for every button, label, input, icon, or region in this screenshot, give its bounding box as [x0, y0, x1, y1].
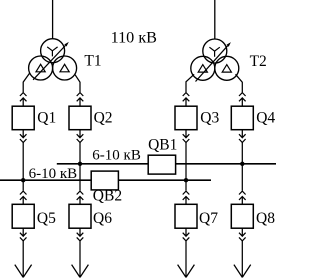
outgoing feeder arrow from Q5 [15, 241, 32, 278]
wire Q2 to section bus 2, crossing bus 1 [79, 143, 81, 191]
wire Q1 to section bus 1 [22, 143, 24, 181]
wire Q3 to section bus 1, crossing bus 2 [185, 143, 187, 191]
plug contacts below Q5 [20, 228, 27, 241]
plug contacts above Q8 [239, 191, 246, 204]
svg-text:Q2: Q2 [94, 110, 113, 127]
svg-text:QB1: QB1 [148, 136, 177, 153]
section bus 2 (6-10 kV), left part [57, 163, 148, 165]
tap-changer arrow of T2 [196, 42, 231, 81]
outgoing feeder arrow from Q7 [178, 241, 195, 278]
breaker Q5 [12, 204, 34, 228]
svg-text:Q6: Q6 [93, 210, 112, 227]
junction: Q2/Q6 on bus 2 [78, 162, 82, 166]
plug contacts below Q2 [77, 130, 84, 143]
plug contacts below Q4 [239, 130, 246, 143]
wire: T1 LV winding 2 down to Q2 [75, 74, 80, 92]
breaker Q3 [175, 106, 197, 130]
svg-text:Q1: Q1 [37, 110, 56, 127]
wire bus 1 down to Q5 [22, 180, 24, 190]
svg-text:Q5: Q5 [37, 210, 56, 227]
section bus 1 (6-10 kV), left part [0, 179, 91, 181]
junction: Q4/Q8 on bus 2 [240, 162, 244, 166]
svg-text:6-10 кВ: 6-10 кВ [29, 166, 78, 182]
plug contacts above Q4 [239, 93, 246, 107]
junction: Q3/Q7 on bus 1 [184, 178, 188, 182]
svg-text:T1: T1 [84, 52, 101, 69]
wire: T1 LV winding 1 down to Q1 [23, 73, 30, 93]
transformer T2 (3-winding, split LV) [191, 39, 239, 80]
svg-text:Q7: Q7 [199, 210, 218, 227]
svg-text:110 кВ: 110 кВ [111, 28, 157, 46]
wire Q4 to section bus 2 [241, 143, 243, 191]
svg-text:Q3: Q3 [200, 110, 219, 127]
plug contacts above Q2 [77, 93, 84, 107]
svg-text:T2: T2 [250, 53, 267, 70]
plug contacts above Q3 [183, 93, 190, 107]
breaker Q2 [69, 106, 91, 130]
svg-text:6-10 кВ: 6-10 кВ [92, 148, 141, 164]
plug contacts below Q8 [239, 228, 246, 241]
breaker Q4 [231, 106, 253, 130]
section bus 2 (6-10 kV), right part [176, 163, 276, 165]
junction: Q1/Q5 on bus 1 [21, 178, 25, 182]
plug contacts below Q6 [77, 228, 84, 241]
plug contacts above Q5 [20, 191, 27, 204]
wire: 110 kV feed to T1 [52, 0, 54, 39]
svg-text:Q4: Q4 [256, 110, 275, 127]
tap-changer arrow of T1 [33, 42, 69, 80]
plug contacts below Q7 [183, 228, 190, 241]
breaker Q6 [69, 204, 91, 228]
breaker Q7 [175, 204, 197, 228]
svg-text:QB2: QB2 [93, 187, 122, 204]
plug contacts above Q6 [77, 191, 84, 204]
outgoing feeder arrow from Q8 [234, 241, 251, 278]
outgoing feeder arrow from Q6 [72, 241, 89, 278]
section bus 1 (6-10 kV), right part [118, 179, 211, 181]
plug contacts above Q1 [20, 93, 27, 107]
transformer T1 (3-winding, split LV) [29, 39, 77, 80]
breaker Q8 [231, 204, 253, 228]
wire: 110 kV feed to T2 [214, 0, 216, 39]
bus tie disconnector QB2 [91, 171, 118, 190]
svg-text:Q8: Q8 [256, 210, 275, 227]
plug contacts below Q3 [183, 130, 190, 143]
wire: T2 LV winding 1 down to Q3 [186, 74, 194, 92]
plug contacts above Q7 [183, 191, 190, 204]
bus tie breaker QB1 [148, 155, 175, 174]
plug contacts below Q1 [20, 130, 27, 143]
breaker Q1 [12, 106, 34, 130]
wire: T2 LV winding 2 down to Q4 [236, 74, 243, 92]
